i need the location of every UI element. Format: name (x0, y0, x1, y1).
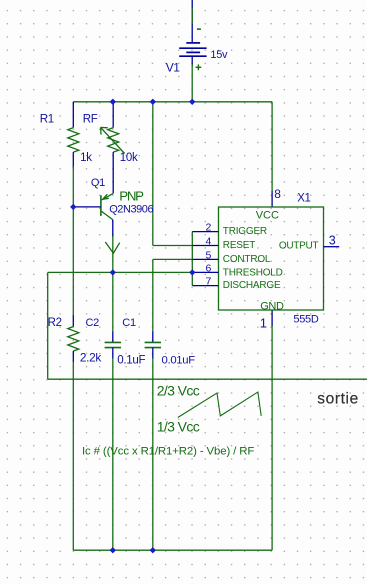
svg-text:V1: V1 (166, 60, 181, 74)
transistor Q1 emitter diagonal (102, 193, 114, 200)
capacitor C2 bottom lead (112, 348, 114, 359)
node pin6/threshold junction (189, 269, 195, 275)
wire threshold net left drop (47, 272, 49, 379)
wire VCC rail to pin 4 riser (152, 102, 154, 246)
svg-text:X1: X1 (297, 193, 310, 205)
resistor R1 body (68, 128, 79, 153)
svg-text:8: 8 (274, 187, 281, 201)
current direction arrow Ic (105, 242, 119, 253)
pin 2 stub (192, 231, 218, 233)
svg-text:5: 5 (206, 249, 212, 261)
svg-text:VCC: VCC (256, 209, 279, 221)
svg-text:PNP: PNP (119, 189, 144, 204)
capacitor C1 bottom lead (152, 348, 154, 359)
op-amp U1 : 555 timer X1 box (219, 207, 324, 310)
svg-text:C1: C1 (122, 317, 136, 329)
node C1 riser/VCC rail junction (150, 99, 156, 105)
svg-text:CONTROL: CONTROL (223, 254, 271, 265)
node RF/VCC rail junction (110, 99, 116, 105)
battery V1 positive lead (191, 56, 193, 66)
RF bottom lead / Q1 emitter lead (112, 152, 114, 193)
wire pins 2-6-7 vertical tie (191, 232, 193, 286)
svg-text:4: 4 (206, 236, 212, 248)
battery minus sign (197, 28, 201, 30)
svg-text:1/3 Vcc: 1/3 Vcc (157, 418, 200, 434)
svg-text:15v: 15v (210, 49, 228, 61)
svg-text:R1: R1 (40, 114, 54, 126)
node base junction (70, 204, 76, 210)
svg-text:Q2N3906: Q2N3906 (109, 203, 153, 215)
node C2/ground junction (110, 547, 116, 553)
battery V1 plates (179, 43, 206, 56)
svg-text:C2: C2 (86, 317, 100, 329)
pin 8 stub (271, 191, 273, 208)
pin 5 stub (192, 258, 218, 260)
wire threshold node down to C2 (112, 272, 114, 331)
resistor R2 body (68, 327, 79, 352)
transistor Q1 collector lead (112, 220, 114, 237)
resistor R2 bottom lead (72, 351, 74, 362)
svg-text:10k: 10k (120, 152, 138, 164)
wire battery to top rail (191, 64, 193, 102)
wire R2 to ground rail (72, 362, 74, 550)
capacitor C2 top lead (112, 332, 114, 343)
svg-text:sortie: sortie (317, 391, 359, 408)
svg-text:6: 6 (206, 262, 212, 274)
svg-text:7: 7 (206, 276, 212, 288)
node battery/VCC rail junction (189, 99, 195, 105)
capacitor C2 plates (105, 342, 121, 347)
wire top rail down to pin 8 (271, 102, 273, 191)
svg-text:R2: R2 (48, 317, 62, 329)
wire C2 bottom to ground rail (112, 359, 114, 551)
svg-text:2.2k: 2.2k (80, 351, 101, 365)
svg-text:RF: RF (83, 114, 98, 126)
wire pin 5 horizontal (153, 258, 193, 260)
wire (green segment on battery top lead) (191, 8, 193, 24)
capacitor C1 plates (145, 342, 161, 347)
svg-text:OUTPUT: OUTPUT (279, 240, 319, 251)
transistor Q1 emitter arrow (PNP) (103, 194, 109, 199)
sawtooth waveform annotation (178, 392, 261, 418)
svg-text:DISCHARGE: DISCHARGE (223, 280, 281, 291)
pin 7 stub (192, 285, 218, 287)
wire collector to threshold net (112, 236, 114, 272)
resistor R1 top lead (72, 102, 74, 128)
svg-text:0.01uF: 0.01uF (162, 354, 196, 366)
svg-text:1: 1 (260, 315, 267, 330)
svg-text:GND: GND (260, 300, 284, 312)
wire R1 to base node and down to R2 (72, 166, 74, 317)
potentiometer RF body (108, 128, 119, 153)
capacitor C1 top lead (152, 332, 154, 343)
potentiometer RF wiper arrow (101, 127, 125, 153)
battery plus sign (196, 64, 202, 70)
svg-text:2: 2 (206, 222, 212, 234)
potentiometer RF top lead (112, 102, 114, 128)
svg-text:TRIGGER: TRIGGER (223, 226, 267, 237)
transistor Q1 collector diagonal (102, 211, 113, 220)
svg-text:0.1uF: 0.1uF (117, 353, 145, 366)
svg-text:1k: 1k (80, 152, 92, 164)
ground rail wire (73, 549, 272, 551)
pin 4 stub (192, 245, 218, 247)
wire pin 4 horizontal (153, 245, 193, 247)
node C1/ground junction (150, 547, 156, 553)
transistor Q1 base lead (73, 206, 101, 208)
transistor Q1 base bar (100, 195, 102, 216)
svg-text:Ic # ((Vcc x R1/R1+R2) - Vbe): Ic # ((Vcc x R1/R1+R2) - Vbe) / RF (82, 445, 254, 457)
battery V1 negative lead wire (191, 0, 193, 43)
pin 1 stub (271, 310, 273, 326)
svg-text:THRESHOLD: THRESHOLD (223, 267, 283, 278)
wire C1 bottom to ground rail (152, 359, 154, 551)
top rail wire (VCC net) (73, 101, 272, 103)
resistor R1 bottom lead (72, 152, 74, 168)
svg-text:555D: 555D (293, 314, 318, 326)
wire pin 5 down to C1 (152, 259, 154, 331)
node collector/threshold junction (110, 269, 116, 275)
wire sortie output line (48, 378, 367, 380)
wire threshold net horizontal (48, 271, 193, 273)
svg-text:2/3 Vcc: 2/3 Vcc (157, 382, 200, 398)
svg-text:Q1: Q1 (91, 177, 105, 189)
resistor R2 top lead (72, 316, 74, 327)
svg-text:RESET: RESET (223, 240, 255, 251)
pin 3 stub (324, 246, 340, 248)
wire pin 1 to ground rail (271, 326, 273, 550)
pin 6 stub (192, 271, 218, 273)
svg-text:3: 3 (329, 233, 336, 247)
